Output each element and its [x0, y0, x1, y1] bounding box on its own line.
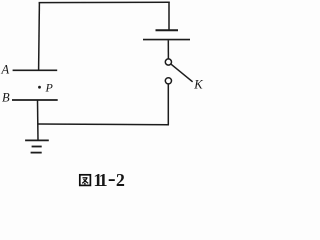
svg-text:A: A: [1, 63, 10, 77]
wire plate B to ground: [37, 100, 40, 141]
caption dash: [109, 179, 115, 181]
wire battery to switch: [167, 40, 169, 59]
wire switch to bottom rail: [167, 84, 169, 125]
switch K bottom terminal: [165, 78, 171, 84]
svg-text:11: 11: [93, 170, 107, 189]
wire top rail to battery: [168, 2, 170, 30]
capacitor plate B: [12, 99, 58, 101]
switch K blade: [171, 64, 192, 82]
wire left vertical (plate A to top rail): [38, 3, 41, 71]
svg-text:B: B: [2, 90, 10, 104]
battery positive plate (long): [143, 39, 190, 41]
svg-text:K: K: [193, 77, 203, 91]
svg-text:P: P: [45, 81, 54, 95]
caption hanzi TU (figure) drawn as paths: [80, 175, 91, 186]
ground bottom bar: [31, 152, 42, 154]
switch K top terminal: [165, 59, 171, 65]
wire top rail: [39, 1, 170, 3]
ground middle bar: [32, 146, 42, 148]
ground top bar: [25, 139, 49, 141]
capacitor plate A: [13, 69, 58, 71]
svg-text:2: 2: [116, 170, 125, 189]
wire bottom rail: [37, 123, 169, 126]
point P dot: [38, 86, 41, 89]
battery negative plate (short): [156, 29, 179, 31]
